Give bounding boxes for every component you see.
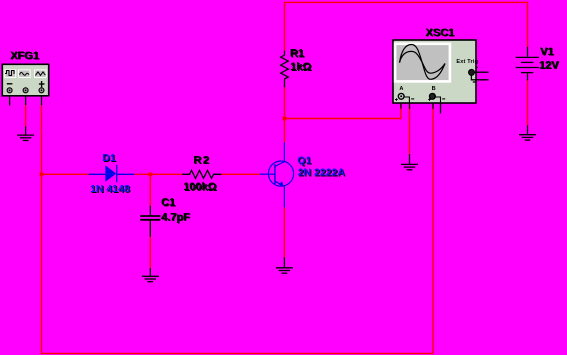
svg-text:XSC1: XSC1 — [425, 27, 454, 39]
svg-text:A: A — [399, 86, 403, 92]
svg-text:Q1: Q1 — [297, 154, 311, 166]
svg-text:4.7pF: 4.7pF — [161, 211, 190, 223]
svg-text:Ext Trig: Ext Trig — [456, 59, 478, 65]
svg-text:D1: D1 — [102, 152, 116, 164]
svg-text:XFG1: XFG1 — [10, 50, 39, 62]
svg-text:12V: 12V — [539, 59, 559, 71]
svg-text:V1: V1 — [540, 46, 553, 58]
svg-text:R1: R1 — [290, 48, 304, 60]
svg-text:1N 4148: 1N 4148 — [90, 183, 130, 195]
svg-text:C1: C1 — [161, 197, 175, 209]
svg-text:100kΩ: 100kΩ — [183, 181, 216, 193]
svg-text:R2: R2 — [193, 154, 210, 166]
svg-text:1kΩ: 1kΩ — [290, 61, 311, 73]
svg-text:B: B — [432, 86, 436, 92]
svg-text:2N 2222A: 2N 2222A — [298, 167, 346, 179]
